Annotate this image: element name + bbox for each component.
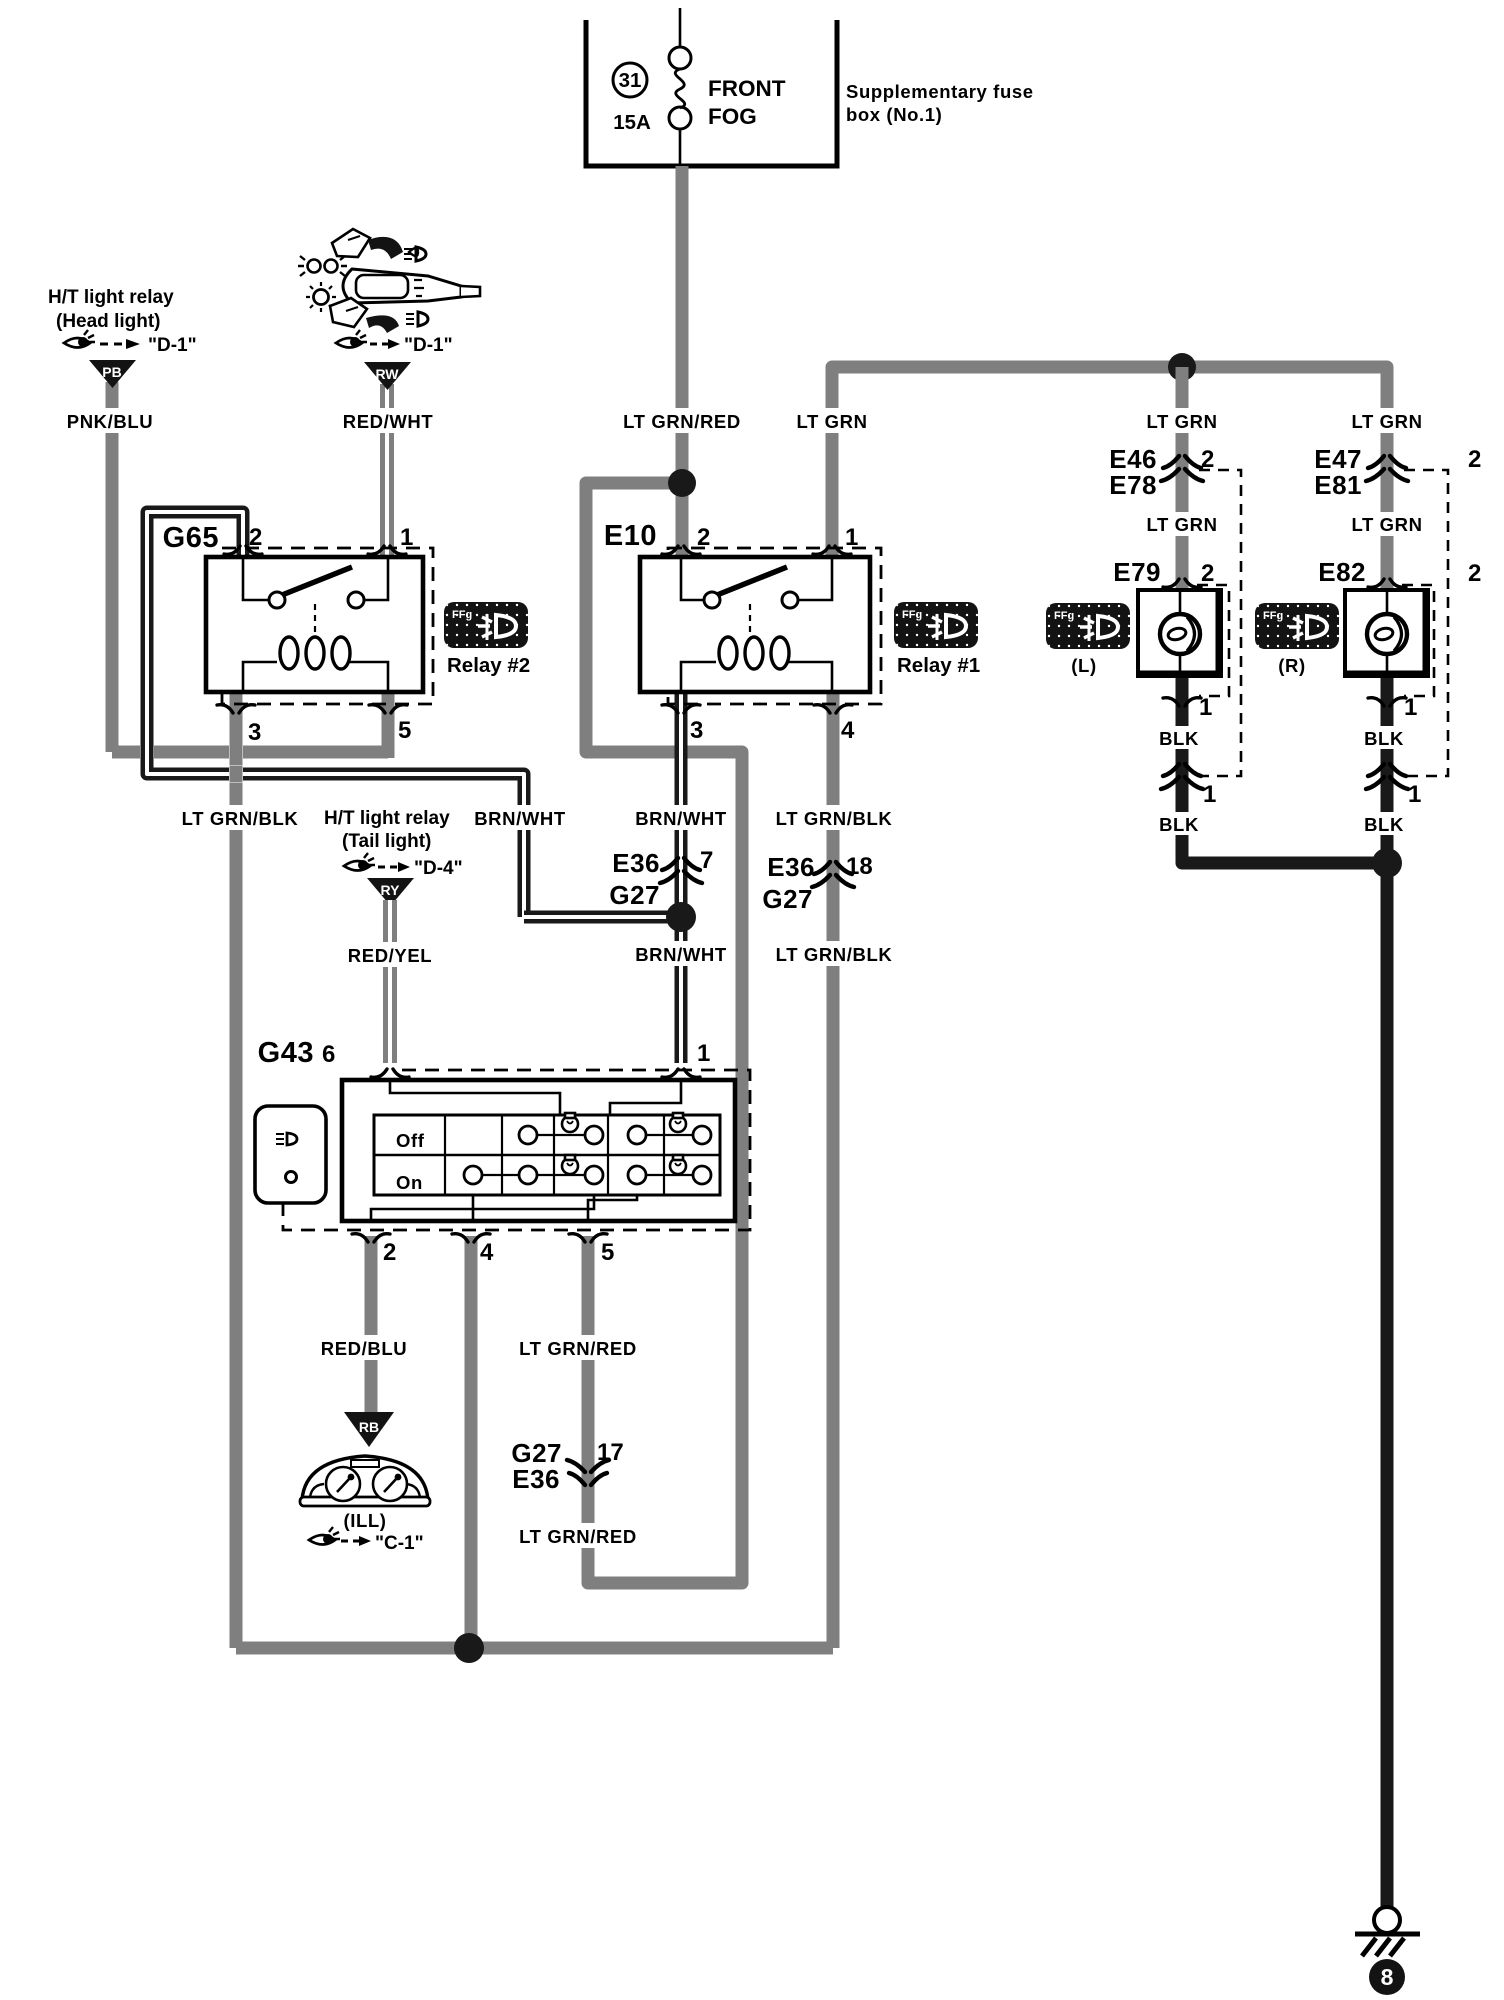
eye to C-1	[309, 1527, 424, 1554]
svg-text:5: 5	[398, 717, 411, 744]
svg-text:5: 5	[601, 1239, 614, 1266]
svg-text:G65: G65	[163, 522, 219, 554]
node junction top right	[1168, 353, 1196, 381]
svg-text:1: 1	[1203, 781, 1216, 808]
svg-text:2: 2	[383, 1239, 396, 1266]
label RED/WHT	[337, 408, 439, 433]
fog icon FFg (L)	[1046, 603, 1130, 649]
svg-text:BRN/WHT: BRN/WHT	[635, 944, 727, 965]
svg-text:RB: RB	[359, 1419, 379, 1435]
svg-text:17: 17	[597, 1439, 624, 1466]
svg-text:2: 2	[1468, 446, 1481, 473]
wire bottom bus LT GRN/BLK	[236, 1642, 833, 1655]
svg-text:E36: E36	[512, 1464, 560, 1494]
svg-text:E81: E81	[1314, 470, 1362, 500]
label LT GRN/BLK	[180, 805, 300, 830]
wire E10 pin4 LT GRN/BLK down	[827, 692, 840, 1648]
eye to D-4	[344, 853, 463, 879]
label LT GRN/BLK (E10 pin4)	[774, 805, 894, 830]
svg-text:"C-1": "C-1"	[375, 1533, 424, 1554]
svg-text:LT GRN/BLK: LT GRN/BLK	[776, 944, 893, 965]
svg-text:LT GRN/RED: LT GRN/RED	[519, 1526, 637, 1547]
pin 3 bracket G65	[217, 705, 255, 713]
svg-text:On: On	[396, 1172, 423, 1193]
switch icon box	[255, 1106, 326, 1203]
label LT GRN	[791, 408, 873, 433]
svg-text:(Head light): (Head light)	[56, 311, 161, 332]
svg-text:4: 4	[841, 717, 855, 744]
svg-text:RED/WHT: RED/WHT	[343, 411, 434, 432]
On row contacts	[464, 1166, 482, 1184]
connector E36/G27 pin7 on BRN/WHT	[609, 847, 713, 910]
svg-text:LT GRN/RED: LT GRN/RED	[623, 411, 741, 432]
svg-text:3: 3	[690, 717, 703, 744]
connector E10 dashed outline	[668, 548, 881, 704]
switch G43 body	[342, 1080, 735, 1221]
svg-text:(Tail light): (Tail light)	[342, 831, 431, 852]
connector inline pin1 (body ground connector)	[1161, 764, 1216, 808]
svg-text:E82: E82	[1318, 557, 1366, 587]
pin 1 bracket below bulb	[1163, 698, 1201, 706]
svg-text:BLK: BLK	[1364, 728, 1404, 749]
svg-text:E78: E78	[1109, 470, 1157, 500]
svg-text:(ILL): (ILL)	[343, 1510, 386, 1531]
relay E10 box	[640, 557, 870, 692]
svg-text:31: 31	[619, 69, 642, 92]
svg-text:RED/BLU: RED/BLU	[321, 1338, 407, 1359]
ground symbol	[1355, 1907, 1420, 1956]
wire BRN/WHT horizontal into junction	[524, 911, 681, 924]
svg-text:1: 1	[400, 524, 413, 551]
pin 1 bracket E10	[813, 546, 851, 554]
wire branch LT GRN/RED: junction to G43 pin5	[586, 483, 742, 1583]
combination switch art	[298, 229, 480, 333]
svg-text:(R): (R)	[1278, 655, 1305, 676]
pin 4 bracket G43	[452, 1234, 490, 1242]
label RED/YEL	[342, 942, 438, 967]
svg-text:RED/YEL: RED/YEL	[348, 945, 432, 966]
svg-text:2: 2	[697, 524, 710, 551]
svg-text:2: 2	[249, 524, 262, 551]
wire RED/YEL to G43 pin6	[383, 900, 397, 1063]
fog lamp bulb E79	[1138, 590, 1221, 676]
svg-text:BLK: BLK	[1159, 814, 1199, 835]
white gap where LT GRN/BLK crosses loop bottom	[229, 766, 243, 783]
svg-text:4: 4	[480, 1239, 494, 1266]
svg-text:1: 1	[1408, 781, 1421, 808]
svg-text:box (No.1): box (No.1)	[846, 104, 942, 125]
wire G43 pin2 RED/BLU down to RB funnel	[365, 1236, 378, 1412]
wire RED/WHT double to G65 pin1	[380, 384, 394, 557]
svg-text:LT GRN: LT GRN	[1351, 514, 1422, 535]
node junction BRN/WHT	[666, 902, 696, 932]
label LT GRN/BLK below connector	[774, 941, 894, 966]
connector funnel RB (to ILL)	[344, 1412, 394, 1447]
pin 2 bracket G43	[352, 1234, 390, 1242]
svg-text:BLK: BLK	[1159, 728, 1199, 749]
wire G65 pin5 stub	[382, 692, 395, 758]
wire PNK/BLU vertical to G65 pin5 link	[106, 382, 119, 752]
svg-text:2: 2	[1468, 560, 1481, 587]
connector G65 dashed outline	[222, 548, 433, 704]
label BRN/WHT (E10 pin3)	[630, 805, 733, 830]
pin 1 bracket G65	[368, 546, 406, 554]
svg-text:BLK: BLK	[1364, 814, 1404, 835]
svg-text:LT GRN/BLK: LT GRN/BLK	[776, 808, 893, 829]
svg-text:Relay #2: Relay #2	[447, 654, 530, 677]
connector funnel PB	[89, 360, 136, 388]
label BRN/WHT (loop)	[469, 805, 572, 830]
svg-text:LT GRN: LT GRN	[1351, 411, 1422, 432]
Off row contacts	[519, 1126, 537, 1144]
svg-text:1: 1	[1404, 694, 1417, 721]
pin 1 bracket G43	[662, 1069, 700, 1077]
svg-text:(L): (L)	[1071, 655, 1096, 676]
wire E10 pin1 up and right to lamps (LT GRN)	[832, 367, 1387, 557]
label RED/BLU	[316, 1335, 412, 1360]
connector funnel RY	[367, 878, 414, 906]
svg-text:G27: G27	[609, 880, 660, 910]
relay icon FFg Relay #1	[894, 602, 978, 648]
connector E79 pin2 bracket	[1113, 557, 1214, 587]
svg-text:LT GRN/RED: LT GRN/RED	[519, 1338, 637, 1359]
pin 6 bracket G43	[371, 1069, 409, 1077]
svg-text:H/T light relay: H/T light relay	[48, 287, 174, 308]
connector funnel RW	[364, 362, 411, 390]
svg-text:7: 7	[700, 847, 713, 874]
svg-text:FFg: FFg	[452, 609, 472, 621]
wire left lamp chain LT GRN segments	[1176, 367, 1189, 590]
dashed link E47-to-BLK connector	[1404, 470, 1448, 776]
svg-text:6: 6	[322, 1041, 335, 1068]
svg-text:BRN/WHT: BRN/WHT	[474, 808, 566, 829]
connector G43 dashed outline	[283, 1070, 750, 1230]
svg-text:1: 1	[697, 1040, 710, 1067]
svg-text:"D-1": "D-1"	[404, 335, 453, 356]
eye to D-1 (switch)	[336, 330, 453, 356]
svg-text:G27: G27	[762, 884, 813, 914]
relay G65 internals	[243, 557, 388, 692]
pin 2 bracket G65	[224, 546, 262, 554]
white crossing gaps on PNK/BLU horizontal	[140, 744, 243, 761]
svg-text:2: 2	[1201, 560, 1214, 587]
label LT GRN left lamp	[1141, 408, 1223, 433]
dashed link E82 pin2-pin1	[1402, 585, 1434, 696]
dashed link E46-to-BLK connector	[1199, 470, 1241, 776]
connector G27/E36 pin17 on LT GRN/RED	[511, 1438, 623, 1494]
node junction bottom bus	[454, 1633, 484, 1663]
label LT GRN	[1141, 512, 1223, 536]
relay E10 internals	[681, 557, 832, 692]
svg-text:Supplementary fuse: Supplementary fuse	[846, 81, 1034, 102]
connector E82 pin2 bracket	[1318, 557, 1481, 587]
svg-text:FFg: FFg	[1054, 610, 1074, 622]
wire horizontal PNK/BLU to G65 pin5	[112, 746, 388, 759]
svg-text:BRN/WHT: BRN/WHT	[635, 808, 727, 829]
dashed link E79 pin2-pin1	[1197, 585, 1229, 696]
pin 3 bracket E10	[662, 705, 700, 713]
svg-text:FOG: FOG	[708, 104, 757, 129]
wire LT GRN/RED from fuse to E10 pin2	[676, 166, 689, 557]
wire right lamp BLK below bulb down to ground	[1381, 676, 1394, 1907]
wire G43 pin4 down to bus	[465, 1236, 478, 1648]
connector inline pin1 (R)	[1366, 764, 1421, 808]
pin 4 bracket E10	[814, 705, 852, 713]
label LT GRN	[1346, 512, 1428, 536]
label LT GRN/RED	[620, 408, 745, 433]
svg-text:E10: E10	[604, 520, 657, 552]
meter cluster icon (ILL)	[300, 1456, 430, 1506]
svg-text:1: 1	[1199, 694, 1212, 721]
svg-text:LT GRN: LT GRN	[1146, 411, 1217, 432]
svg-text:E36: E36	[767, 852, 815, 882]
fuse 31 15A FRONT FOG	[613, 8, 786, 166]
svg-text:FRONT: FRONT	[708, 76, 786, 101]
label PNK/BLU	[60, 408, 160, 433]
svg-text:G43: G43	[258, 1037, 314, 1069]
eye to D-1 (head light)	[64, 330, 197, 356]
svg-text:RW: RW	[375, 366, 399, 382]
svg-text:PB: PB	[102, 364, 121, 380]
svg-text:"D-1": "D-1"	[148, 335, 197, 356]
svg-text:FFg: FFg	[1263, 610, 1283, 622]
svg-text:18: 18	[846, 853, 873, 880]
wire left lamp BLK below bulb to corner	[1182, 676, 1387, 863]
svg-text:PNK/BLU: PNK/BLU	[67, 411, 153, 432]
svg-text:Relay #1: Relay #1	[897, 654, 980, 677]
ground id circle 8	[1369, 1959, 1405, 1995]
connector E47/E81 inline	[1314, 444, 1481, 500]
svg-text:Off: Off	[396, 1130, 425, 1151]
node junction BLK grounds	[1372, 848, 1402, 878]
label LT GRN/RED lower	[516, 1523, 641, 1548]
wire G65 pin3 LT GRN/BLK down to bottom bus	[230, 692, 243, 1648]
label BLK (R)	[1359, 726, 1409, 749]
pin 5 bracket G43	[569, 1234, 607, 1242]
svg-text:15A: 15A	[613, 111, 651, 134]
svg-text:LT GRN: LT GRN	[796, 411, 867, 432]
label BLK 2	[1154, 812, 1204, 835]
pin 2 bracket E10	[662, 546, 700, 554]
label: Supplementary fuse box (No.1)	[846, 81, 1034, 125]
svg-text:E79: E79	[1113, 557, 1161, 587]
node junction at fuse wire	[668, 469, 696, 497]
label LT GRN/RED (pin5 wire)	[516, 1335, 641, 1360]
pin 1 bracket below bulb (R)	[1368, 698, 1406, 706]
svg-text:LT GRN/BLK: LT GRN/BLK	[182, 808, 299, 829]
fog lamp bulb E82	[1345, 590, 1428, 676]
label H/T light relay (Head light)	[48, 287, 174, 332]
svg-text:FFg: FFg	[902, 609, 922, 621]
label BLK 2 (R)	[1359, 812, 1409, 835]
label H/T light relay (Tail light)	[324, 808, 450, 852]
label BLK	[1154, 726, 1204, 749]
svg-text:3: 3	[248, 719, 261, 746]
svg-text:H/T light relay: H/T light relay	[324, 808, 450, 829]
label BRN/WHT below junction	[630, 941, 733, 966]
connector E46/E78 inline	[1109, 444, 1214, 500]
svg-text:"D-4": "D-4"	[414, 858, 463, 879]
relay G65 box	[206, 557, 423, 692]
svg-text:E36: E36	[612, 848, 660, 878]
fuse box No.1	[586, 20, 837, 166]
svg-text:LT GRN: LT GRN	[1146, 514, 1217, 535]
svg-text:1: 1	[845, 524, 858, 551]
wire E10 pin3 BRN/WHT down to G43 pin1	[675, 692, 688, 1063]
label LT GRN right lamp	[1346, 408, 1428, 433]
wire BLK loop G65 pin2 around left and down (BRN)	[147, 512, 524, 917]
fog icon FFg (R)	[1255, 603, 1339, 649]
connector E36/G27 pin18 on LT GRN/BLK	[762, 852, 872, 914]
illumination bulbs	[562, 1113, 686, 1174]
relay icon FFg Relay #2	[444, 602, 528, 648]
svg-text:RY: RY	[381, 882, 401, 898]
switch G43 internals	[371, 1080, 720, 1221]
svg-text:8: 8	[1381, 1964, 1394, 1990]
wire right lamp chain LT GRN segment	[1381, 455, 1394, 590]
